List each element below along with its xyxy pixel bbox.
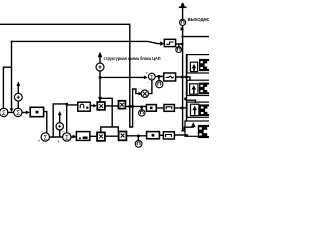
svg-text:+: + [146, 71, 149, 76]
svg-text:+: + [38, 139, 41, 144]
svg-text:Σ: Σ [44, 135, 48, 141]
svg-text:ВЫХОДНОЙ СИГ: ВЫХОДНОЙ СИГ [188, 17, 209, 22]
svg-text:структурная схема блока ЦАП: структурная схема блока ЦАП [104, 55, 161, 61]
svg-text:Σ: Σ [16, 111, 20, 117]
svg-text:+: + [57, 139, 60, 144]
svg-text:Σ: Σ [65, 135, 69, 141]
svg-text:Σ: Σ [2, 111, 6, 117]
